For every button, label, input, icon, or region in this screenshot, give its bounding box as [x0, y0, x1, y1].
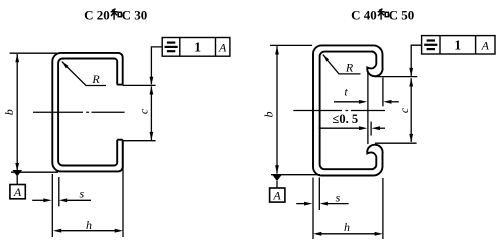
svg-text:h: h — [86, 218, 92, 232]
svg-text:t: t — [344, 85, 348, 99]
svg-text:s: s — [79, 187, 84, 201]
svg-text:A: A — [13, 185, 22, 199]
svg-text:R: R — [345, 61, 354, 75]
svg-text:A: A — [272, 189, 281, 203]
svg-text:R: R — [91, 72, 100, 86]
svg-text:b: b — [262, 112, 276, 118]
svg-text:1: 1 — [454, 38, 461, 53]
svg-text:c: c — [397, 107, 411, 113]
svg-text:b: b — [2, 109, 16, 115]
svg-text:A: A — [218, 40, 227, 54]
svg-text:s: s — [336, 191, 341, 205]
svg-text:A: A — [481, 38, 490, 52]
svg-text:C 20: C 20 — [84, 8, 110, 23]
svg-text:C 30: C 30 — [122, 8, 148, 23]
svg-text:C 50: C 50 — [389, 8, 415, 23]
svg-text:1: 1 — [194, 40, 201, 55]
svg-text:h: h — [344, 220, 350, 234]
svg-text:C 40: C 40 — [351, 8, 377, 23]
svg-text:≤0. 5: ≤0. 5 — [332, 112, 358, 126]
svg-text:c: c — [136, 108, 150, 114]
